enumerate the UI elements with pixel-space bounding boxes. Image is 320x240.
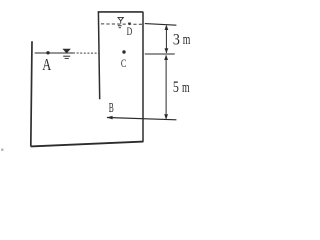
dim 3m bottom arrow (165, 48, 169, 53)
tube top (98, 11, 143, 13)
svg-text:5: 5 (173, 79, 179, 96)
svg-text:m: m (182, 80, 190, 96)
dim 3m line (165, 26, 167, 53)
tube left wall (98, 12, 99, 100)
tank bottom (31, 142, 144, 147)
scan smudge bottom-left (1, 149, 4, 152)
dim 3m top arrow (165, 25, 169, 30)
point D marker (128, 23, 132, 26)
top tick (tube surface level) (145, 24, 177, 26)
tank left wall (31, 41, 32, 146)
B arrow (107, 116, 113, 120)
free surface symbol (tank) (62, 49, 71, 54)
svg-text:m: m (183, 32, 191, 48)
svg-text:D: D (127, 24, 133, 38)
svg-text:A: A (42, 55, 51, 74)
point A marker (46, 51, 49, 54)
dim 5m top arrow (164, 55, 168, 60)
tank right wall / tube right wall (142, 12, 144, 142)
dim 5m bottom arrow (164, 114, 168, 119)
B pipe line (107, 118, 176, 120)
tank water surface line (35, 52, 73, 54)
svg-text:3: 3 (173, 32, 180, 49)
middle tick (tank surface level) (145, 53, 175, 55)
point C marker (122, 50, 125, 53)
free surface symbol (tube) (118, 17, 123, 21)
svg-text:B: B (109, 101, 114, 116)
svg-text:C: C (121, 58, 127, 70)
tube water surface line (101, 23, 143, 25)
dim 5m line (165, 56, 167, 119)
